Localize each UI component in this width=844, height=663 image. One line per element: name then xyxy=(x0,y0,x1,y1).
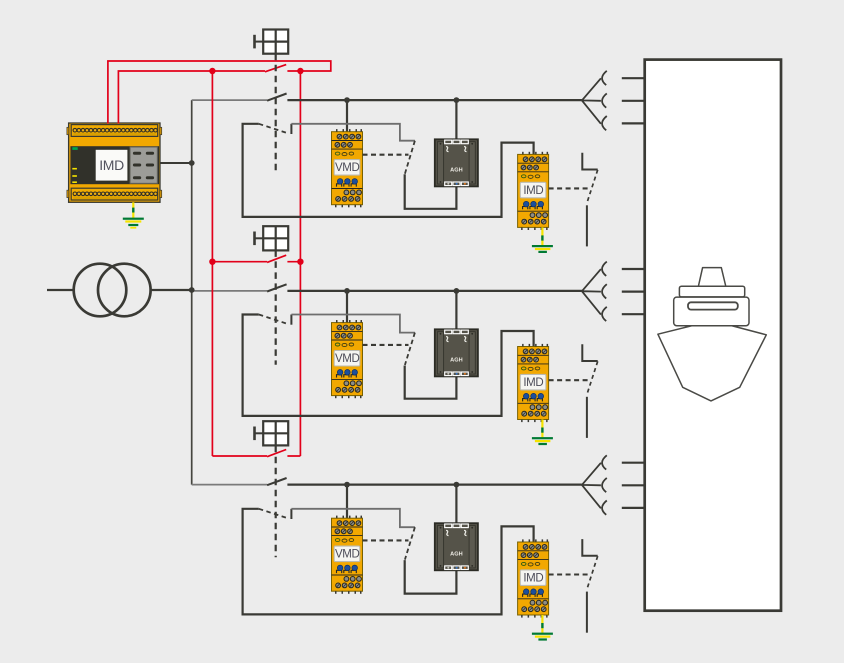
node bus/transformer junction xyxy=(189,287,195,293)
coupling switch blade dashed 3 xyxy=(405,527,415,559)
auxiliary contact dashed section 2 xyxy=(259,315,288,324)
node VMD tap 2 xyxy=(344,288,350,294)
breaker Q1 main contact blade xyxy=(267,94,287,101)
insulation monitoring controller IMD U1 xyxy=(67,123,162,202)
wire AGH3 supply drop xyxy=(455,485,457,524)
node AGH tap 1 xyxy=(454,97,460,103)
node red junction A2 xyxy=(209,259,215,265)
wire VMD2 supply drop xyxy=(346,291,348,323)
mechanical link dashed Q1 xyxy=(275,54,277,173)
breaker Q3 main contact blade xyxy=(267,478,287,485)
wire feeder left segments grey xyxy=(192,100,267,485)
IMD3 control line dashed xyxy=(549,573,589,575)
node AGH tap 2 xyxy=(454,288,460,294)
wire coupling switch to AGH2 bottom xyxy=(405,366,457,399)
ship symbol xyxy=(658,268,766,401)
wire red trip loop section 3 xyxy=(212,455,300,457)
voltage monitor VMD2 xyxy=(332,320,363,398)
node VMD tap 3 xyxy=(344,482,350,488)
coupling device AGH1 xyxy=(435,139,478,186)
wire measurement loop section 1 xyxy=(243,124,534,217)
svg-text:IMD: IMD xyxy=(523,377,543,389)
motor operator M2 of breaker Q2 xyxy=(255,226,289,250)
wire aux contact riser 1 xyxy=(290,124,292,134)
insulation monitor IMD3 xyxy=(518,539,549,617)
wire VMD3 supply drop xyxy=(346,485,348,519)
node VMD tap 1 xyxy=(344,97,350,103)
wire red vertical trip bus left xyxy=(211,71,213,456)
mechanical link dashed Q2 xyxy=(275,250,277,364)
wire VMD1 supply drop xyxy=(346,100,348,132)
wire red trip loop section 2 xyxy=(212,261,300,263)
ground PE of controller xyxy=(123,202,144,228)
voltage monitor VMD3 xyxy=(332,516,363,594)
wire grey tap to coupling switch 2 xyxy=(291,315,415,333)
plug and socket connector section 1 xyxy=(582,71,645,131)
svg-text:IMD: IMD xyxy=(523,185,543,197)
insulation monitor IMD1 xyxy=(518,152,549,230)
red breaker trip contact section 2 xyxy=(267,255,286,262)
node red junction B2 xyxy=(297,259,303,265)
wire coupling switch to AGH3 bottom xyxy=(405,560,457,594)
red breaker trip contact section 1 xyxy=(265,65,286,72)
wire measurement loop section 3 xyxy=(243,509,534,615)
wire measurement loop section 2 xyxy=(243,315,534,416)
coupling switch blade dashed 2 xyxy=(405,333,415,365)
wire AGH1 supply drop xyxy=(455,100,457,139)
ship hull outline box (load) xyxy=(645,60,781,611)
wire aux contact riser 2 xyxy=(290,315,292,325)
wire grey tap to coupling switch 3 xyxy=(291,509,415,527)
node bus/controller junction xyxy=(189,160,195,166)
plug and socket connector section 2 xyxy=(582,262,645,322)
wire supply bus vertical xyxy=(191,100,193,485)
wire aux contact riser 3 xyxy=(290,509,292,519)
svg-text:VMD: VMD xyxy=(335,353,359,365)
node AGH tap 3 xyxy=(454,482,460,488)
wire red trip loop section 1 xyxy=(108,61,331,124)
wire grey tap to coupling switch 1 xyxy=(291,124,415,141)
IMD1 control line dashed xyxy=(549,187,589,189)
coupling device AGH3 xyxy=(435,523,478,570)
wire red vertical trip bus right xyxy=(299,71,301,456)
auxiliary contact dashed section 3 xyxy=(259,509,288,518)
svg-text:VMD: VMD xyxy=(335,549,359,561)
coupling device AGH2 xyxy=(435,329,478,376)
wire AGH2 supply drop xyxy=(455,291,457,329)
wire coupling switch to AGH1 bottom xyxy=(405,174,457,209)
motor operator M3 of breaker Q3 xyxy=(255,421,289,445)
VMD2 control line dashed xyxy=(363,344,409,346)
auxiliary contact dashed section 1 xyxy=(259,124,288,133)
VMD3 control line dashed xyxy=(363,539,409,541)
ship disconnect switch section 3 xyxy=(582,539,597,633)
svg-text:IMD: IMD xyxy=(523,572,543,584)
ground PE of IMD3 xyxy=(532,615,553,641)
transformer T1 xyxy=(47,264,192,317)
IMD2 control line dashed xyxy=(549,379,589,381)
node red junction A1 xyxy=(209,68,215,74)
voltage monitor VMD1 xyxy=(332,129,363,207)
coupling switch blade dashed 1 xyxy=(405,141,415,174)
red breaker trip contact section 3 xyxy=(267,450,286,457)
wire feeder line section 3 xyxy=(287,484,582,486)
breaker Q2 main contact blade xyxy=(267,284,287,291)
mechanical link dashed Q3 xyxy=(275,446,277,558)
ship disconnect switch section 1 xyxy=(582,153,597,247)
ground PE of IMD1 xyxy=(532,227,553,253)
wire feeder line section 2 xyxy=(287,290,582,292)
ship disconnect switch section 2 xyxy=(582,344,597,438)
plug and socket connector section 3 xyxy=(582,455,645,515)
ground PE of IMD2 xyxy=(532,420,553,446)
svg-text:VMD: VMD xyxy=(335,162,359,174)
motor operator M1 of breaker Q1 xyxy=(255,29,289,53)
node red junction B1 xyxy=(297,68,303,74)
VMD1 control line dashed xyxy=(363,154,409,156)
wire controller output to bus xyxy=(160,162,192,164)
wire feeder line section 1 xyxy=(287,99,582,101)
svg-text:IMD: IMD xyxy=(99,157,124,173)
insulation monitor IMD2 xyxy=(518,344,549,422)
